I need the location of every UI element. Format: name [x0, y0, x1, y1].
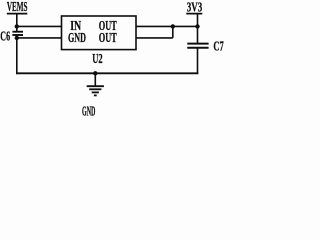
wire OUT bottom pin	[136, 37, 173, 39]
svg-text:C6: C6	[0, 28, 10, 43]
wire VEMS vertical drop	[16, 14, 18, 32]
node junction dot VIN	[15, 24, 19, 28]
svg-text:GND: GND	[68, 30, 86, 45]
capacitor C6	[0, 28, 23, 43]
ground rail wire	[16, 72, 198, 74]
wire riser joining OUT pins	[172, 26, 174, 38]
svg-text:GND: GND	[82, 104, 96, 119]
svg-text:U2: U2	[92, 51, 103, 66]
wire OUT top pin to 3V3 column	[136, 25, 198, 27]
svg-text:C7: C7	[213, 39, 224, 54]
ground symbol	[87, 73, 104, 95]
regulator U2 body	[62, 16, 137, 50]
wire C7 bottom to ground rail	[197, 48, 199, 74]
power label 3V3	[186, 0, 202, 14]
svg-text:3V3: 3V3	[187, 0, 203, 14]
node junction dot ground	[93, 71, 97, 75]
node junction dot OUT join	[171, 24, 175, 28]
wire C6 bottom to ground rail	[16, 35, 18, 74]
net label VEMS	[7, 0, 28, 14]
node junction dot GND-left	[15, 36, 19, 40]
wire to IN pin	[17, 25, 62, 27]
svg-text:VEMS: VEMS	[7, 0, 28, 14]
wire 3V3 vertical drop	[197, 14, 199, 44]
svg-text:OUT: OUT	[99, 30, 117, 45]
wire to GND pin	[17, 37, 62, 39]
capacitor C7	[187, 39, 224, 54]
node junction dot 3V3	[195, 24, 199, 28]
